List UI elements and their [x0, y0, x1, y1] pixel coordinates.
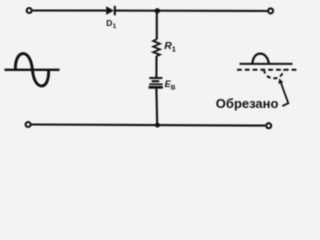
svg-text:Обрезано: Обрезано — [216, 96, 279, 111]
svg-text:D: D — [106, 18, 112, 28]
svg-text:1: 1 — [172, 45, 176, 54]
svg-text:B: B — [171, 85, 176, 92]
svg-text:1: 1 — [113, 23, 117, 30]
